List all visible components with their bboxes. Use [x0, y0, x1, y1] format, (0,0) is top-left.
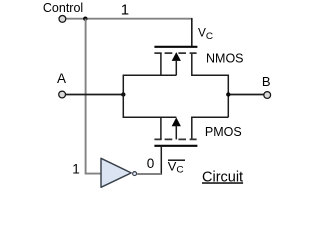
wire control down to inverter: [86, 19, 101, 174]
node control junction: [83, 17, 87, 21]
wire bottom edge B side: [192, 117, 229, 139]
NMOS bulk arrow: [172, 52, 181, 61]
svg-text:1: 1: [121, 2, 129, 19]
wire right vertical: [227, 75, 229, 118]
svg-text:B: B: [262, 74, 271, 89]
wire left vertical: [122, 75, 124, 117]
transistor Q1 NMOS gate bar: [154, 46, 197, 48]
svg-text:Circuit: Circuit: [202, 169, 243, 185]
svg-text:0: 0: [147, 156, 155, 171]
inverter U1: [101, 158, 131, 187]
NMOS channel dashes: [154, 52, 196, 54]
node A junction: [121, 92, 125, 96]
wire control vertical to NMOS gate: [191, 18, 193, 46]
A terminal: [59, 91, 66, 98]
NMOS source lead: [160, 53, 162, 75]
Control terminal: [59, 16, 66, 23]
svg-text:V: V: [198, 26, 206, 40]
inverter bubble: [133, 172, 137, 176]
wire top edge B side: [192, 53, 229, 75]
svg-text:1: 1: [72, 162, 80, 177]
wire B: [228, 94, 264, 96]
transistor Q2 PMOS channel dashes: [154, 138, 196, 140]
B terminal: [264, 92, 271, 99]
node B junction: [226, 92, 230, 96]
PMOS bulk arrow: [172, 117, 181, 126]
svg-text:C: C: [176, 165, 184, 175]
label VC-bar: [168, 159, 185, 161]
svg-text:PMOS: PMOS: [205, 125, 242, 139]
wire inverter output: [137, 173, 161, 175]
PMOS gate bar: [154, 145, 197, 147]
svg-text:A: A: [57, 71, 66, 86]
svg-text:C: C: [206, 31, 214, 41]
wire control horizontal: [66, 18, 191, 20]
wire top edge A side: [123, 74, 177, 76]
svg-text:Control: Control: [43, 1, 83, 15]
PMOS gate lead: [160, 146, 162, 175]
wire A: [66, 94, 123, 96]
svg-text:NMOS: NMOS: [206, 52, 244, 66]
wire bottom edge A side: [123, 116, 177, 118]
PMOS source lead: [160, 117, 162, 139]
